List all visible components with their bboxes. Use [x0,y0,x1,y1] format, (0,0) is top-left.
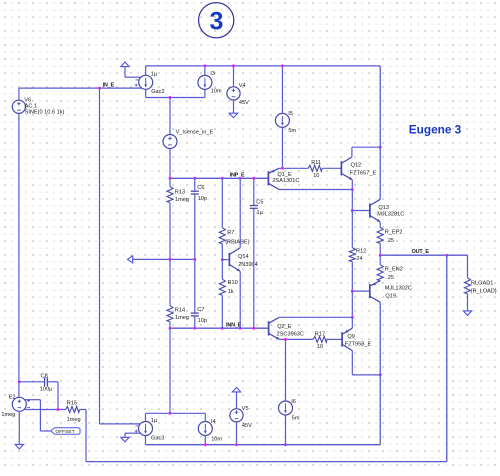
svg-text:24: 24 [356,256,362,262]
wire mid node [133,258,195,260]
junction INN R14 [169,327,172,330]
label Q1_E [272,172,299,184]
voltage source V5 [230,409,243,422]
wire Gac3 top [145,413,147,421]
label Q19 [385,285,412,299]
svg-text:Eugene 3: Eugene 3 [409,123,462,137]
pin mark minus E2 [27,407,30,409]
ground V4 [229,113,237,118]
flag OFFSET [51,428,80,436]
resistor R_EN2 [377,265,383,281]
transistor Q1_E [268,168,279,189]
junction Q14 base [221,258,224,261]
wire V5 top [236,392,238,409]
junction INN Q14e [239,327,242,330]
junction INP Q14c [239,177,242,180]
svg-text:1meg: 1meg [175,315,189,321]
wire V_Isense bottom [169,149,171,179]
label V4 [239,83,249,106]
svg-text:I4: I4 [211,419,216,425]
wire bottom rail 1 [146,444,381,446]
node IN_E label [103,83,115,89]
svg-text:FZT657_E: FZT657_E [350,171,377,177]
wire Gac3 rail [146,412,206,414]
junction Gac2 bottom [169,96,172,99]
current source I4 [198,422,212,436]
transistor Q14 [229,178,240,328]
ground Gac3 [121,437,129,442]
svg-text:{RBIASE}: {RBIASE} [225,240,249,246]
junction INP R7 [221,177,224,180]
wire E2 ctl upper [25,400,51,431]
wire out sense column [446,255,448,461]
transistor Q2_E [269,317,280,339]
label Q12 [350,162,377,176]
wire I6 top [285,339,287,401]
svg-text:R13: R13 [175,190,185,196]
svg-text:Q13: Q13 [378,205,389,211]
junction C8 tap [18,380,21,383]
wire Gac2 top [145,66,147,75]
label R_EP2 [385,230,403,244]
voltage source V_Isense_in_E [163,135,177,149]
junction Q9 coll rail [379,373,382,376]
resistor R12 [349,211,355,292]
svg-text:1meg: 1meg [175,197,189,203]
junction Q1 emitter [281,167,284,170]
svg-text:I6: I6 [291,399,296,405]
svg-text:1µ: 1µ [151,72,158,78]
svg-text:R12: R12 [356,249,366,255]
svg-text:45V: 45V [242,423,252,429]
pin mark plus E2 [27,399,30,402]
wire Q9 collector [352,351,380,375]
current source I5 [275,113,289,127]
voltage source V4 [227,87,240,100]
label R15 [67,401,81,423]
title Eugene 3 [409,123,462,137]
svg-text:10p: 10p [198,318,207,324]
wire R17 to Q9 [327,338,342,340]
wire R_EN2 top [379,255,381,265]
label E2 [1,394,15,418]
svg-text:C6: C6 [197,185,204,191]
current source Gac3 [139,422,153,436]
wire rail right top [379,66,381,199]
label C7 [197,307,207,324]
svg-text:V_Isense_in_E: V_Isense_in_E [176,129,214,135]
svg-text:MJL1302C: MJL1302C [385,285,412,291]
junction INP C5 [252,177,255,180]
junction IN_E [98,87,101,90]
wire V4 top [233,66,235,87]
label R13 [175,190,189,203]
wire Q2 collector [279,316,352,318]
wire to V_Isense [169,98,171,135]
resistor RLOAD1 [465,278,471,294]
resistor R17 [313,336,327,342]
ground RLOAD1 [463,311,471,316]
label V_Isense_in_E [176,129,214,135]
pin mark plus Gac3 [135,430,138,433]
junction Q2 collector [351,316,354,319]
transistor Q19 [370,281,380,303]
svg-text:.25: .25 [386,275,394,281]
label Q13 [377,205,404,218]
svg-text:{R_LOAD}: {R_LOAD} [471,289,497,295]
junction Q13 base [351,209,354,212]
svg-text:Q9: Q9 [347,334,354,340]
junction Q12e Q1c [351,188,354,191]
junction R15 left [57,408,60,411]
label C8 [40,373,53,392]
label I3 [210,71,222,95]
current source Gac2 [139,75,153,89]
transistor Q12 [341,157,352,180]
terminal arrow mid [128,256,133,263]
svg-text:1µ: 1µ [151,418,158,424]
label R7 [225,230,249,246]
wire Q12 emitter [351,180,353,190]
svg-text:R10: R10 [228,280,238,286]
resistor R14 [167,259,173,328]
wire I3 bottom [204,89,206,97]
label Q14 [238,254,258,268]
svg-text:Q2_E: Q2_E [277,324,292,330]
svg-text:R15: R15 [67,401,77,407]
label R17 [315,331,325,350]
wire IN column [99,88,101,424]
wire Gac3 bottom [145,436,147,445]
junction mid R13 [169,258,172,261]
resistor R7 [219,178,225,259]
junction I4 bottom [204,443,207,446]
svg-text:C8: C8 [41,373,48,379]
svg-text:OUT_E: OUT_E [412,249,430,255]
svg-text:SINE(0 10.6 1k): SINE(0 10.6 1k) [25,109,65,115]
source E2 [12,397,26,411]
svg-text:1meg: 1meg [1,412,15,418]
svg-text:INP_E: INP_E [230,173,245,179]
svg-text:3: 3 [210,7,224,35]
node OUT_E label [412,249,430,255]
svg-text:Q14: Q14 [238,254,249,260]
svg-text:Gac2: Gac2 [151,89,164,95]
junction INN C7 [193,327,196,330]
capacitor C8 [19,377,58,409]
junction INP R13 [169,177,172,180]
wire I4 bottom [204,436,206,445]
wire I5 bottom [281,127,283,168]
wire R15 right [80,410,86,462]
wire Gac3 ctl upper [100,423,141,425]
svg-text:10m: 10m [211,436,222,442]
label R12 [356,249,366,262]
label R11 [311,160,321,179]
label V6 [24,97,64,115]
junction V4 top [232,64,235,67]
wire E2 bottom [18,411,20,444]
wire Q13 base node [351,190,353,211]
label Gac2 [151,72,165,96]
wire Gac3 ctl lower [125,433,141,437]
wire V6 top [18,88,20,100]
wire mid rail 2 [351,291,353,317]
wire bottom rail 2 [86,461,447,463]
svg-text:5m: 5m [288,128,296,134]
pin mark minus Gac2 [135,79,138,81]
label R_EN2 [385,267,403,281]
wire Q14 base [222,259,229,261]
wire INP_E rail [170,177,268,179]
svg-text:OFFSET: OFFSET [55,429,74,435]
junction mid C6 [193,258,196,261]
wire RLOAD bottom [467,294,469,311]
svg-text:MJL3281C: MJL3281C [377,211,404,217]
wire IN_E [19,87,141,89]
transistor Q13 [370,199,380,222]
junction V5 bottom [235,443,238,446]
svg-text:R11: R11 [311,160,321,166]
label R14 [175,308,189,321]
label Q2_E [277,324,304,337]
svg-text:10m: 10m [211,89,222,95]
resistor R15 [66,407,80,413]
resistor R10 [219,260,225,329]
wire Q9 emitter [351,317,353,328]
svg-text:1k: 1k [228,289,234,295]
svg-text:IN_E: IN_E [103,83,115,89]
resistor R11 [308,165,322,171]
wire Q2 emitter [279,338,313,340]
svg-text:R17: R17 [315,331,325,337]
junction Q2 emitter [284,338,287,341]
svg-text:2SA1301C: 2SA1301C [272,178,299,184]
label Q9 [345,334,372,348]
resistor R13 [167,178,173,259]
wire V4 bottom [233,100,235,113]
svg-text:Q19: Q19 [385,293,396,299]
svg-text:100µ: 100µ [40,387,53,393]
capacitor C7 [191,259,199,328]
wire R11 to Q12 [322,167,341,169]
junction I3 top [203,64,206,67]
label C6 [197,185,207,202]
wire Q19 base [352,290,370,292]
svg-text:V5: V5 [242,406,249,412]
svg-text:I3: I3 [210,71,215,77]
wire I3 top [204,66,206,76]
wire Q12 collector [352,147,380,157]
resistor R_EP2 [377,222,383,255]
label RLOAD1 [471,281,497,295]
terminal arrow IN [121,62,141,77]
svg-text:R_EP2: R_EP2 [385,230,403,236]
wire Q1 collector [279,189,352,191]
junction Q12 collector [379,146,382,149]
junction INP C6 [193,177,196,180]
junction Q19 base [351,290,354,293]
svg-text:1µ: 1µ [257,210,264,216]
capacitor C5 [250,178,258,328]
svg-text:.25: .25 [386,238,394,244]
svg-text:5m: 5m [292,415,300,421]
wire I5 top [281,66,283,114]
svg-text:2SC3963C: 2SC3963C [277,331,304,337]
current source I6 [279,401,293,415]
junction I6 bottom [284,443,287,446]
svg-text:R7: R7 [227,230,234,236]
svg-text:FZT958_E: FZT958_E [345,342,372,348]
svg-text:C5: C5 [256,200,263,206]
wire INN_E rail [170,327,269,329]
transistor Q9 [342,328,352,350]
junction OUT mid [445,254,448,257]
svg-text:Gac3: Gac3 [151,436,164,442]
wire Gac2 bottom [146,89,205,97]
label I5 [288,111,296,134]
wire I4 top [204,413,206,421]
svg-text:R14: R14 [175,308,185,314]
junction INN R10 [221,327,224,330]
svg-text:E2: E2 [9,394,16,400]
voltage source V6 [12,100,25,113]
svg-text:C7: C7 [197,307,204,313]
junction I5 top [281,64,284,67]
pin mark plus Gac2 [135,84,138,87]
label I4 [211,419,222,442]
current source I3 [198,75,212,89]
svg-text:RLOAD1: RLOAD1 [471,281,493,287]
wire OUT_E [380,254,467,256]
wire top rail [146,65,381,67]
svg-text:I5: I5 [288,111,293,117]
wire I6 bottom [285,415,287,445]
wire RLOAD top [467,255,469,278]
node INP_E label [230,173,245,179]
wire E2 ctl lower [24,409,66,411]
capacitor C6 [191,178,199,259]
svg-text:R_EN2: R_EN2 [385,267,403,273]
junction Gac3 rail [169,412,172,415]
ground E2 [15,444,23,449]
node INN_E label [226,323,242,329]
wire R14col down [169,328,171,413]
label Gac3 [151,418,165,441]
svg-text:45V: 45V [239,100,249,106]
svg-text:10: 10 [317,344,323,350]
wire V5 bottom [236,422,238,445]
svg-text:Q12: Q12 [351,162,362,168]
svg-text:2N3904: 2N3904 [238,262,258,268]
label C5 [256,200,263,216]
ground flipped V5 [232,387,240,392]
svg-text:10: 10 [313,173,319,179]
wire Q1 emitter [279,167,308,169]
svg-text:V4: V4 [239,83,246,89]
wire V6 bottom rail [18,113,20,397]
wire Q13 base [352,210,370,212]
junction OUT left [379,254,382,257]
label R10 [228,280,238,295]
svg-text:10p: 10p [198,196,207,202]
svg-text:1meg: 1meg [67,417,81,423]
wire rail right bottom [379,302,381,444]
title circled 3 [199,3,234,38]
label I6 [291,399,300,421]
junction INN C5 [252,327,255,330]
label V5 [242,406,252,429]
pin mark minus Gac3 [135,425,138,427]
